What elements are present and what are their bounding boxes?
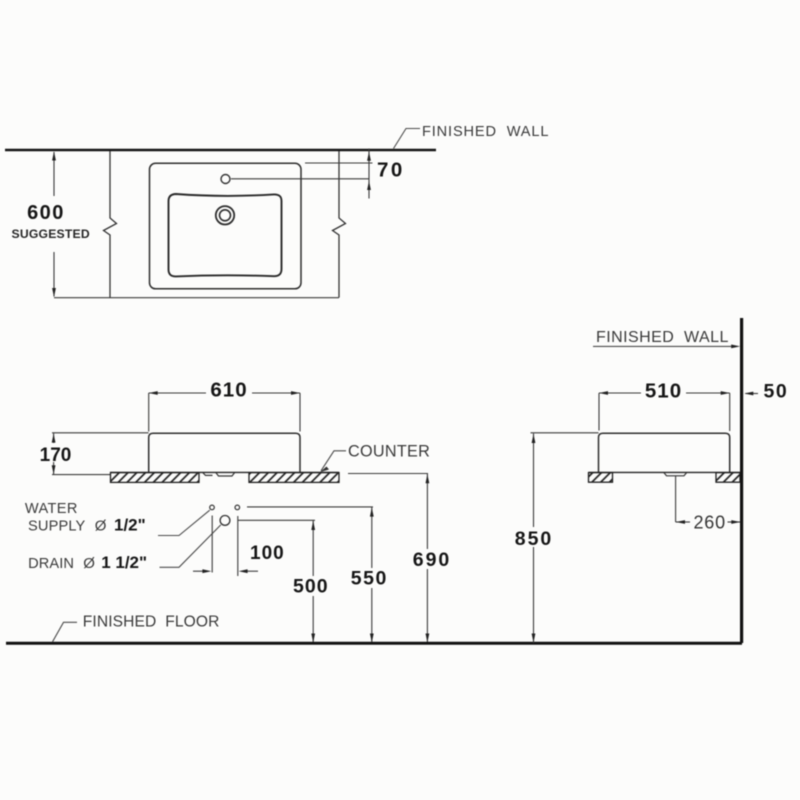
finished wall label (plan) [394, 124, 550, 149]
svg-text:Ø: Ø [95, 518, 107, 535]
drain pipe line (side) [675, 476, 677, 522]
sink underside boss (side) [664, 473, 687, 476]
water supply label [25, 501, 146, 535]
sink box (side) [599, 433, 730, 472]
svg-text:FINISHED FLOOR: FINISHED FLOOR [83, 614, 220, 631]
basin (plan) [169, 194, 282, 276]
dimension 500 [238, 520, 331, 643]
svg-text:610: 610 [210, 379, 247, 402]
svg-text:1/2": 1/2" [114, 516, 146, 535]
counter hatch left (side) [589, 473, 613, 483]
svg-text:Ø: Ø [83, 555, 95, 572]
dimension 50 [744, 381, 788, 403]
svg-text:WATER: WATER [25, 501, 78, 517]
svg-text:100: 100 [250, 543, 285, 564]
svg-text:DRAIN: DRAIN [28, 556, 74, 572]
floor line [6, 642, 742, 645]
sink box (front) [149, 433, 300, 472]
water supply hole right [235, 505, 240, 510]
dimension 100 [193, 516, 285, 577]
dimension 170 [37, 433, 149, 475]
drain hole (front) [220, 516, 230, 526]
water supply leader [158, 510, 210, 535]
svg-text:1 1/2": 1 1/2" [101, 553, 147, 572]
svg-text:FINISHED WALL: FINISHED WALL [422, 124, 549, 140]
counter hatch right (side) [716, 473, 740, 483]
wall line (plan) [5, 149, 436, 152]
drain label [28, 553, 147, 572]
svg-text:SUGGESTED: SUGGESTED [12, 227, 90, 241]
dimension 260 [676, 513, 741, 533]
dimension 550 [247, 507, 391, 643]
svg-text:260: 260 [694, 513, 726, 533]
counter label [320, 443, 430, 473]
counter top line (side) [589, 471, 741, 473]
counter bottom edge (plan) [54, 297, 339, 299]
svg-text:850: 850 [515, 528, 554, 550]
svg-text:500: 500 [293, 576, 329, 598]
dimension 600 SUGGESTED [12, 152, 90, 298]
dimension 690 [348, 474, 454, 644]
svg-text:550: 550 [351, 568, 388, 590]
svg-text:70: 70 [377, 159, 405, 182]
counter right edge with break (plan) [333, 151, 346, 298]
svg-text:SUPPLY: SUPPLY [28, 519, 86, 535]
svg-text:510: 510 [645, 380, 682, 403]
sink rim (plan) [150, 163, 302, 288]
wall line (side) [740, 318, 743, 643]
svg-text:50: 50 [764, 381, 789, 403]
sink underside boss (front) [203, 473, 235, 476]
drain leader [160, 525, 221, 567]
finished floor label [53, 614, 220, 642]
drain (plan) [216, 206, 234, 224]
svg-text:170: 170 [40, 445, 72, 466]
dimension 70 [231, 149, 405, 199]
dimension 850 [512, 434, 556, 644]
svg-text:COUNTER: COUNTER [348, 443, 430, 461]
finished wall label (side) [593, 329, 740, 349]
counter left edge with break (plan) [104, 151, 117, 298]
svg-text:690: 690 [413, 549, 452, 571]
faucet hole (plan) [221, 175, 230, 184]
water supply hole left [210, 505, 215, 510]
svg-text:FINISHED WALL: FINISHED WALL [596, 329, 729, 346]
counter hatch right (front) [249, 473, 339, 483]
svg-text:600: 600 [27, 202, 65, 224]
dimension 850 extension line [531, 432, 599, 434]
counter hatch left (front) [111, 473, 200, 483]
counter top line (front) [110, 471, 339, 473]
dimension 510 [599, 378, 730, 431]
dimension 610 [149, 378, 300, 432]
